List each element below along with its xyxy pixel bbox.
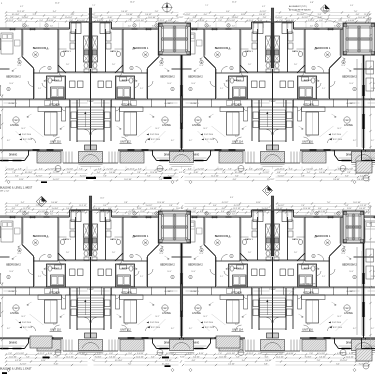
svg-text:6: 6	[156, 25, 157, 27]
svg-text:1: 1	[49, 256, 50, 258]
svg-text:2'-2 1/2": 2'-2 1/2"	[7, 20, 14, 22]
hall tag squares	[288, 269, 294, 276]
bedroom1 west wall	[340, 217, 342, 245]
svg-text:12'-4 1/4": 12'-4 1/4"	[136, 356, 144, 358]
corner walk tag	[363, 175, 369, 181]
closet door marks	[168, 102, 178, 104]
bath2 fixtures	[48, 78, 52, 83]
living dining wall	[182, 149, 213, 151]
svg-text:10'-1 3/4": 10'-1 3/4"	[297, 14, 305, 16]
living dining wall	[0, 149, 31, 151]
deck right	[343, 23, 375, 55]
hall tag squares	[252, 81, 258, 88]
svg-text:12'-4 1/4": 12'-4 1/4"	[16, 353, 24, 355]
door arc kitchen hall	[62, 107, 66, 111]
bottom wall	[118, 337, 153, 339]
core toilet	[93, 63, 97, 68]
svg-text:BEDROOM 1: BEDROOM 1	[215, 46, 231, 50]
small diamond tag near dining	[189, 180, 192, 183]
svg-text:10'-1 3/4": 10'-1 3/4"	[358, 17, 366, 19]
window glazing bottom wall	[324, 149, 331, 151]
svg-text:CLOSET 1: CLOSET 1	[8, 103, 16, 105]
porch step lines	[261, 164, 285, 166]
svg-text:6'-2": 6'-2"	[189, 328, 193, 330]
bedroom2 east wall	[147, 256, 149, 287]
svg-text:4'-2": 4'-2"	[20, 6, 24, 8]
svg-text:6'-2": 6'-2"	[353, 140, 357, 142]
bath2 walls	[298, 264, 317, 287]
stair landing arcs	[267, 318, 273, 324]
svg-text:12'-4 1/4": 12'-4 1/4"	[65, 17, 73, 19]
plan 2 caption bar B	[162, 357, 169, 359]
svg-text:2: 2	[172, 277, 173, 279]
living leader diagonals	[138, 314, 152, 325]
svg-text:3'-4": 3'-4"	[53, 11, 57, 13]
svg-text:6'-0": 6'-0"	[208, 26, 212, 28]
bedroom2 north wall	[364, 68, 374, 70]
svg-text:4'-6": 4'-6"	[128, 26, 132, 28]
svg-text:3'-0 1/2": 3'-0 1/2"	[53, 179, 60, 181]
exterior wall top	[294, 28, 364, 30]
left edge vertical dimension line	[1, 282, 3, 350]
svg-text:4'-2 1/2": 4'-2 1/2"	[20, 363, 27, 365]
stair side closet	[71, 121, 77, 128]
svg-text:10'-0": 10'-0"	[167, 271, 172, 273]
bath1 west wall partial	[240, 236, 249, 238]
exterior wall top	[364, 28, 375, 30]
plan 2 caption bar A	[43, 357, 50, 359]
svg-text:UNIT 112: UNIT 112	[120, 329, 131, 332]
exterior wall side	[181, 217, 183, 338]
living tag circle	[162, 117, 168, 123]
closet strip walls	[364, 98, 375, 100]
svg-text:BEDROOM 2: BEDROOM 2	[160, 76, 175, 79]
svg-text:2: 2	[172, 89, 173, 91]
entry porch hatch	[261, 340, 285, 351]
svg-text:3'-4": 3'-4"	[242, 360, 246, 362]
svg-text:5'-6 1/2": 5'-6 1/2"	[109, 356, 116, 358]
bedroom1 east wall	[304, 217, 306, 261]
svg-text:LIVING: LIVING	[192, 311, 201, 315]
svg-text:4'-2 1/2": 4'-2 1/2"	[97, 20, 104, 22]
door arc kitchen hall	[116, 295, 120, 299]
living leader diagonals	[30, 126, 44, 137]
svg-text:BEDROOM 1: BEDROOM 1	[315, 46, 331, 50]
svg-text:BEDROOM 1: BEDROOM 1	[33, 234, 49, 238]
svg-text:5'-6 1/2": 5'-6 1/2"	[8, 168, 15, 170]
ceiling height notes	[201, 322, 203, 324]
core toilet	[93, 251, 97, 256]
band circled tags plan2	[55, 350, 61, 356]
dresser	[197, 228, 203, 234]
svg-text:2'-2 1/2": 2'-2 1/2"	[247, 353, 254, 355]
svg-text:11'-2 1/2": 11'-2 1/2"	[23, 208, 31, 210]
svg-text:5'-1": 5'-1"	[140, 276, 144, 278]
svg-text:8'-10": 8'-10"	[54, 363, 59, 365]
small diamond tag near dining	[353, 368, 356, 371]
ceiling height notes	[329, 322, 331, 324]
bedroom2 east wall	[329, 256, 331, 287]
bath2 walls	[229, 264, 248, 287]
living tag circle	[344, 305, 350, 311]
closet door marks	[368, 290, 375, 292]
svg-text:14'-2": 14'-2"	[155, 128, 160, 130]
svg-text:5'-6 1/2": 5'-6 1/2"	[307, 168, 314, 170]
bath2 walls	[116, 264, 135, 287]
dresser	[161, 228, 167, 234]
svg-text:7'-6": 7'-6"	[354, 11, 358, 13]
svg-text:9'-0 3/4": 9'-0 3/4"	[305, 356, 312, 358]
entry steps	[117, 340, 119, 352]
washer dryer	[117, 87, 131, 98]
svg-text:6'-0": 6'-0"	[188, 168, 192, 170]
small diamond tag near dining	[7, 180, 10, 183]
svg-text:5'-0": 5'-0"	[350, 5, 354, 7]
kitchen side counter	[244, 295, 248, 309]
svg-text:6'-0": 6'-0"	[318, 208, 322, 210]
svg-text:7'-0 3/4": 7'-0 3/4"	[269, 289, 276, 291]
exterior wall side	[0, 29, 1, 150]
hall north wall	[91, 259, 124, 261]
bedroom2 north wall	[182, 68, 192, 70]
bedroom1 south wall	[305, 72, 330, 74]
closet shelf boxes	[313, 101, 319, 106]
porch step lines	[261, 352, 285, 354]
svg-text:7'-6": 7'-6"	[327, 202, 331, 204]
svg-text:2'-8": 2'-8"	[294, 64, 298, 66]
kitchen side counter	[62, 107, 66, 121]
living leader diagonals	[30, 314, 44, 325]
svg-text:8'-10": 8'-10"	[194, 172, 199, 174]
svg-text:10'-0": 10'-0"	[191, 271, 196, 273]
bottom wall	[211, 149, 246, 151]
hall door arc	[59, 72, 64, 77]
svg-text:9'-0 3/4": 9'-0 3/4"	[22, 17, 29, 19]
window jamb marks	[352, 215, 354, 218]
svg-text:3'-0": 3'-0"	[53, 324, 57, 326]
svg-text:12'-4": 12'-4"	[199, 253, 204, 255]
extension lines to plan top	[5, 214, 7, 217]
washer dryer	[299, 275, 313, 286]
svg-text:6'-0": 6'-0"	[226, 11, 230, 13]
svg-text:2: 2	[354, 277, 355, 279]
svg-text:6'-2": 6'-2"	[7, 328, 11, 330]
diagonal wall	[330, 245, 342, 257]
diagonal wall	[204, 245, 216, 257]
bath1 corner diagonal	[58, 65, 66, 73]
living tag circle	[195, 117, 201, 123]
porch arc	[355, 155, 372, 161]
closet door marks	[186, 102, 196, 104]
bath1 east wall	[287, 217, 289, 260]
party wall shaft	[89, 23, 92, 68]
svg-text:6: 6	[156, 213, 157, 215]
closet strip walls	[91, 286, 182, 288]
entry porch hatch	[261, 152, 285, 163]
door arc dining	[146, 326, 151, 331]
kitchen counters	[220, 106, 244, 108]
svg-text:BATH 2: BATH 2	[52, 79, 60, 82]
core toilet	[266, 251, 270, 256]
entry door stoop	[85, 145, 91, 150]
door arc bedroom1	[136, 67, 143, 74]
svg-text:9'-0 3/4": 9'-0 3/4"	[230, 211, 237, 213]
bath1 west wall partial	[58, 48, 67, 50]
patio slab	[302, 340, 326, 352]
dining bay	[183, 338, 185, 349]
hall door arc	[300, 260, 305, 265]
diagonal wall	[148, 245, 160, 257]
bedroom1 west wall	[203, 217, 205, 245]
bath1 west wall partial	[240, 48, 249, 50]
svg-text:5'-6 1/2": 5'-6 1/2"	[66, 208, 73, 210]
entry door stoop	[91, 333, 97, 338]
dimension line segments	[6, 209, 369, 211]
svg-text:2'-8": 2'-8"	[301, 175, 305, 177]
window sill marks	[154, 215, 165, 217]
svg-text:BATH 1: BATH 1	[63, 238, 71, 241]
svg-text:1: 1	[131, 68, 132, 70]
svg-text:12'-4 1/4": 12'-4 1/4"	[227, 20, 235, 22]
svg-text:6'-0": 6'-0"	[345, 175, 349, 177]
door arc bath2	[317, 83, 322, 88]
living dining wall	[364, 337, 375, 339]
corner walk tag	[363, 363, 369, 369]
window glazing bars top wall	[10, 28, 16, 30]
shared stair well	[76, 288, 78, 330]
svg-text:2'-8": 2'-8"	[155, 11, 159, 13]
svg-text:2'-2 1/2": 2'-2 1/2"	[263, 172, 270, 174]
ceiling height notes	[19, 134, 21, 136]
svg-text:3'-0": 3'-0"	[307, 324, 311, 326]
door arc entry	[236, 325, 242, 331]
washer dryer	[299, 87, 313, 98]
svg-text:9'-0" CLG: 9'-0" CLG	[22, 322, 31, 324]
svg-text:UNIT 216: UNIT 216	[302, 141, 313, 144]
door arc bath2	[224, 271, 229, 276]
dimension line segments	[6, 357, 369, 359]
corner walk hatch	[356, 161, 372, 173]
svg-text:7'-6": 7'-6"	[301, 205, 305, 207]
hall north wall	[58, 259, 91, 261]
window tick marks	[348, 217, 354, 219]
closet strip walls	[0, 98, 91, 100]
window glazing bottom wall	[142, 337, 149, 339]
svg-text:2'-8": 2'-8"	[248, 252, 252, 254]
svg-text:2: 2	[354, 89, 355, 91]
bedroom1 south wall	[123, 72, 148, 74]
svg-text:3'-0": 3'-0"	[235, 324, 239, 326]
closet strip walls	[91, 98, 182, 100]
svg-text:5: 5	[228, 25, 229, 27]
svg-text:8'-10": 8'-10"	[241, 14, 246, 16]
window sill marks	[199, 27, 210, 29]
window tick marks	[348, 29, 354, 31]
dining bay	[365, 150, 367, 161]
deck mid	[159, 211, 191, 243]
svg-text:8'-10": 8'-10"	[180, 356, 185, 358]
svg-text:9'-0 3/4": 9'-0 3/4"	[95, 356, 102, 358]
svg-text:11'-2 1/2": 11'-2 1/2"	[277, 168, 285, 170]
svg-text:9'-0 3/4": 9'-0 3/4"	[126, 14, 133, 16]
core closet boxes	[71, 23, 81, 34]
hall door arc	[300, 72, 305, 77]
core jog wall	[111, 22, 113, 29]
dresser	[15, 228, 21, 234]
closet strip walls	[273, 286, 364, 288]
window glazing bars top wall	[348, 28, 354, 30]
dimension line segments	[6, 12, 369, 14]
plan 1 caption bar B	[164, 177, 172, 179]
door arc bedroom1	[318, 255, 325, 262]
svg-text:BUILDING 6, LEVEL 1, WEST: BUILDING 6, LEVEL 1, WEST	[0, 186, 33, 189]
corner walk hatch	[356, 349, 372, 361]
svg-text:6'-8": 6'-8"	[109, 353, 113, 355]
svg-text:1: 1	[49, 68, 50, 70]
svg-text:5'-3": 5'-3"	[26, 356, 30, 358]
leader arrows scatter	[200, 58, 202, 59]
kitchen island	[227, 112, 240, 135]
svg-text:6'-8": 6'-8"	[264, 363, 268, 365]
extension lines from plan bottom	[5, 353, 7, 356]
bed furniture	[350, 33, 362, 54]
svg-text:6'-8": 6'-8"	[193, 17, 197, 19]
window jamb marks	[170, 215, 172, 218]
svg-text:10'-1 3/4": 10'-1 3/4"	[227, 353, 235, 355]
svg-text:4'-6": 4'-6"	[50, 26, 54, 28]
entry door stoop	[267, 145, 273, 150]
svg-text:9'-8": 9'-8"	[310, 2, 314, 4]
svg-text:9'-0 3/4": 9'-0 3/4"	[319, 172, 326, 174]
window glazing bars side wall	[181, 226, 183, 238]
small diamond tag near dining	[7, 368, 10, 371]
party wall lower	[272, 69, 274, 150]
living tag circle	[13, 117, 19, 123]
svg-text:12'-4 1/4": 12'-4 1/4"	[346, 356, 354, 358]
svg-text:7'-6": 7'-6"	[311, 211, 315, 213]
svg-text:5'-6 1/2": 5'-6 1/2"	[146, 205, 153, 207]
porch arc	[355, 343, 372, 349]
svg-text:11'-2 1/2": 11'-2 1/2"	[127, 168, 135, 170]
living leader diagonals	[212, 314, 226, 325]
svg-text:14'-2": 14'-2"	[155, 316, 160, 318]
hall north wall	[240, 71, 273, 73]
party wall shaft	[271, 23, 274, 68]
living leader diagonals	[212, 126, 226, 137]
svg-text:2'-8": 2'-8"	[263, 17, 267, 19]
svg-text:CLOSET 1: CLOSET 1	[8, 291, 16, 293]
svg-text:BATH 2: BATH 2	[234, 79, 242, 82]
svg-text:12'-4": 12'-4"	[17, 65, 22, 67]
porch step lines	[79, 164, 103, 166]
bedroom1 south wall	[123, 260, 148, 262]
svg-text:6'-0": 6'-0"	[26, 26, 30, 28]
svg-text:7'-6": 7'-6"	[137, 17, 141, 19]
svg-text:4'-6": 4'-6"	[232, 214, 236, 216]
svg-text:BATH 1: BATH 1	[292, 50, 300, 53]
bed furniture	[183, 221, 195, 242]
core jog wall	[111, 210, 113, 217]
svg-text:BEDROOM 1: BEDROOM 1	[315, 234, 331, 238]
kitchen counters	[302, 106, 326, 108]
svg-text:LIVING: LIVING	[162, 123, 171, 127]
door arc bath2	[135, 83, 140, 88]
svg-text:2'-8": 2'-8"	[309, 353, 313, 355]
living dining wall	[182, 337, 213, 339]
closet shelf boxes	[45, 289, 51, 294]
svg-text:BATH 1: BATH 1	[110, 238, 118, 241]
hall tag squares	[106, 269, 112, 276]
bedroom1 west wall	[158, 217, 160, 245]
exterior wall side	[181, 217, 183, 338]
svg-text:KITCHEN: KITCHEN	[303, 104, 314, 107]
door arc bath2	[42, 271, 47, 276]
window glazing bay front	[173, 160, 181, 162]
svg-text:UNIT 116: UNIT 116	[302, 329, 313, 332]
door arc dining	[31, 326, 36, 331]
svg-text:12'-4": 12'-4"	[341, 253, 346, 255]
svg-text:CLOSET 1: CLOSET 1	[190, 103, 198, 105]
svg-text:11'-2 1/2": 11'-2 1/2"	[267, 179, 275, 181]
window glazing bay front	[1, 160, 9, 162]
door arc entry	[54, 325, 60, 331]
svg-text:BEDROOM 2: BEDROOM 2	[188, 76, 203, 79]
svg-text:5'-1": 5'-1"	[38, 88, 42, 90]
svg-text:10'-1 3/4": 10'-1 3/4"	[286, 20, 294, 22]
ceiling fan symbol	[215, 52, 221, 58]
diamond marker top right	[321, 5, 330, 14]
svg-text:6'-8": 6'-8"	[12, 208, 16, 210]
entry door stoop	[273, 145, 279, 150]
core sink	[92, 69, 97, 73]
svg-text:9'-0 3/4": 9'-0 3/4"	[262, 208, 269, 210]
svg-text:11'-2 1/2": 11'-2 1/2"	[211, 175, 219, 177]
svg-text:6'-8": 6'-8"	[258, 353, 262, 355]
patio slab	[302, 152, 326, 164]
svg-text:2'-8": 2'-8"	[319, 168, 323, 170]
bath2 fixtures	[129, 266, 133, 271]
entry steps	[244, 152, 246, 164]
bath1 corner diagonal	[240, 65, 248, 73]
svg-text:3'-4": 3'-4"	[39, 20, 43, 22]
window glazing bay front	[365, 160, 373, 162]
window jamb marks	[192, 215, 194, 218]
entry steps	[299, 152, 301, 164]
hall door arc	[241, 260, 246, 265]
bath2 fixtures	[311, 78, 315, 83]
stair side closet	[71, 309, 77, 316]
stair side closet	[287, 309, 293, 316]
stair side closet	[287, 121, 293, 128]
svg-text:UNIT 210: UNIT 210	[50, 141, 61, 144]
entry steps	[299, 340, 301, 352]
bath1 east wall	[257, 29, 259, 72]
door tag circles	[23, 24, 26, 27]
svg-text:10'-1 3/4": 10'-1 3/4"	[136, 20, 144, 22]
north arrow circle top	[163, 3, 172, 12]
bath1 fixtures	[288, 32, 293, 41]
ceiling height notes	[147, 134, 149, 136]
svg-text:1: 1	[313, 68, 314, 70]
core jog wall	[251, 22, 253, 29]
core sink	[84, 69, 89, 73]
svg-text:5: 5	[316, 213, 317, 215]
dimension line segments	[6, 21, 369, 23]
door arc kitchen hall	[62, 295, 66, 299]
ceiling height notes	[201, 134, 203, 136]
window glazing bottom wall	[215, 337, 222, 339]
window jamb marks	[10, 215, 12, 218]
